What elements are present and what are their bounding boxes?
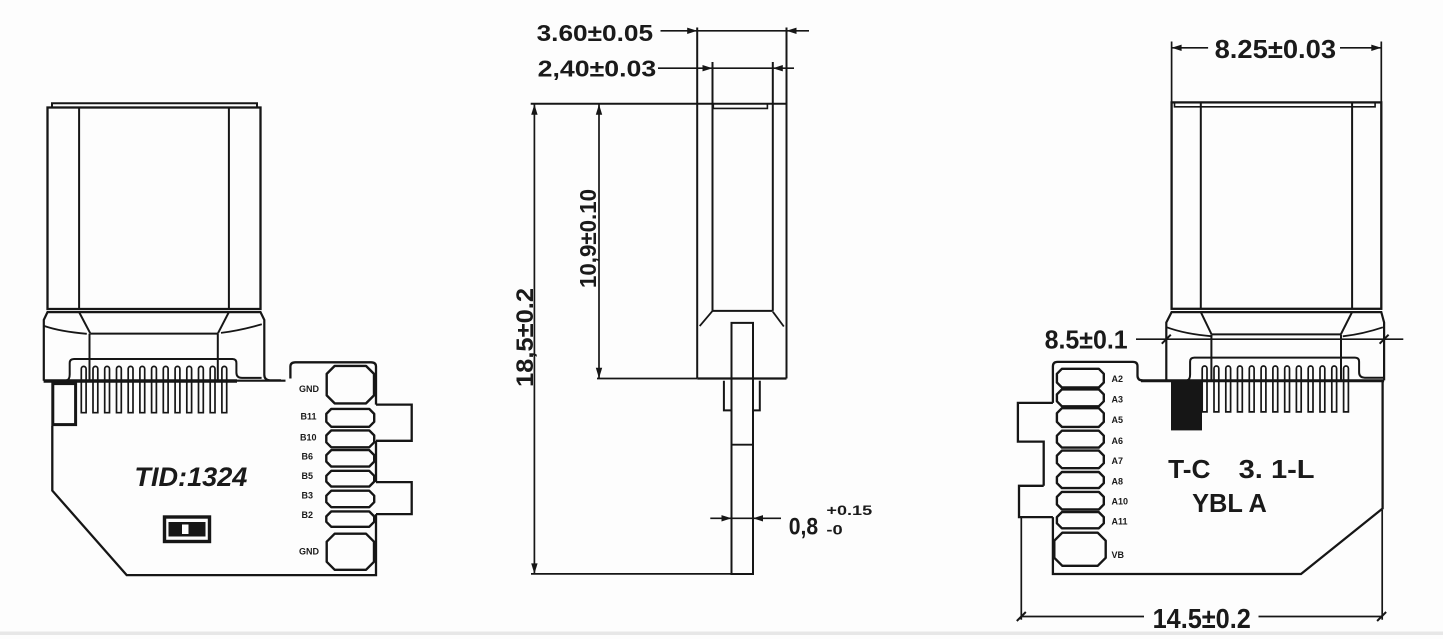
rear view: base thick line bbox=[1141, 379, 1384, 382]
side view: top edge with extension bbox=[531, 103, 787, 105]
left view: PCB outline bbox=[52, 362, 376, 575]
svg-text:10,9±0.10: 10,9±0.10 bbox=[575, 189, 601, 288]
svg-text:A8: A8 bbox=[1112, 477, 1124, 487]
rear view: collar inner chamfer left bbox=[1201, 312, 1212, 334]
rear view: collar fold line right bbox=[1343, 327, 1383, 336]
left view: pad B2 bbox=[326, 511, 374, 526]
svg-text:14.5±0.2: 14.5±0.2 bbox=[1153, 603, 1251, 634]
left view: pad B5 bbox=[326, 471, 374, 487]
svg-text:A6: A6 bbox=[1112, 436, 1124, 446]
rear view: 13 contact pins bbox=[1202, 366, 1207, 412]
svg-text:8.25±0.03: 8.25±0.03 bbox=[1215, 34, 1337, 64]
svg-text:A3: A3 bbox=[1112, 395, 1124, 405]
left view: switch component outline bbox=[165, 517, 210, 542]
svg-text:A10: A10 bbox=[1112, 497, 1129, 507]
side view: top lip bar bbox=[713, 105, 767, 109]
svg-text:A5: A5 bbox=[1112, 415, 1124, 425]
svg-text:GND: GND bbox=[299, 547, 320, 557]
svg-text:GND: GND bbox=[299, 384, 320, 394]
rear view: collar fold line left bbox=[1167, 327, 1212, 336]
side view: pin shoulder right bbox=[753, 381, 760, 411]
svg-text:A7: A7 bbox=[1112, 456, 1124, 466]
rear view: pad A7 bbox=[1057, 451, 1104, 469]
left view: base thick line bbox=[44, 379, 237, 382]
left view: pin housing box bbox=[67, 359, 262, 380]
left view: pad B6 bbox=[326, 450, 374, 467]
left view: pad GND bottom bbox=[327, 534, 374, 570]
rear view: PCB tab lower bbox=[1019, 486, 1053, 517]
dimension 0,8 +0.15/-0 bbox=[710, 502, 872, 541]
svg-text:A11: A11 bbox=[1112, 517, 1128, 527]
rear view: pad A11 bbox=[1057, 512, 1104, 528]
svg-text:VB: VB bbox=[1112, 550, 1125, 560]
rear view: shell inner right edge bbox=[1351, 102, 1353, 308]
dimension 8.5±0.1 bbox=[1045, 325, 1404, 355]
rear view: collar inner wall left bbox=[1210, 334, 1212, 380]
left view: PCB tab upper bbox=[376, 405, 412, 441]
left view: pad B10 bbox=[326, 430, 374, 447]
rear view: shell inner left edge bbox=[1200, 102, 1202, 308]
side view: bottom edge bbox=[697, 377, 786, 379]
left view: shell outer body bbox=[48, 108, 261, 310]
svg-text:+0.15: +0.15 bbox=[826, 502, 872, 518]
dimension 3.60±0.05 bbox=[537, 20, 809, 46]
left view: shell top lip bbox=[52, 103, 257, 107]
left view: collar inner wall left bbox=[89, 334, 91, 381]
rear view: pad A2 bbox=[1057, 369, 1104, 388]
rear view: pad A6 bbox=[1057, 431, 1104, 448]
svg-text:TID:1324: TID:1324 bbox=[134, 462, 247, 492]
left view: pad B3 bbox=[326, 491, 374, 508]
side view: inner left wall bbox=[712, 62, 714, 311]
rear view: pad VB bbox=[1054, 533, 1105, 566]
svg-text:B11: B11 bbox=[301, 412, 317, 422]
left view: shell inner right edge bbox=[228, 108, 230, 310]
side view: cavity floor bbox=[713, 310, 773, 312]
side view: inner right wall bbox=[772, 62, 774, 311]
side view: outer right wall bbox=[786, 28, 788, 379]
svg-text:YBL A: YBL A bbox=[1192, 488, 1267, 518]
left view: collar inner chamfer right bbox=[218, 312, 229, 333]
side view: solder pin bbox=[732, 323, 754, 574]
rear view: pad A10 bbox=[1057, 492, 1104, 510]
rear view: PCB outline bbox=[1053, 362, 1383, 574]
rear view: pad A3 bbox=[1057, 389, 1104, 406]
rear view: pad A8 bbox=[1057, 472, 1104, 488]
left view: PCB tab lower bbox=[376, 482, 412, 514]
rear view: collar inner chamfer right bbox=[1341, 312, 1352, 334]
svg-text:B5: B5 bbox=[302, 471, 314, 481]
rear view: pin housing box bbox=[1187, 358, 1384, 381]
rear view: collar outline bbox=[1166, 312, 1384, 380]
left view: collar fold line left bbox=[44, 326, 87, 334]
dimension 8.25±0.03 bbox=[1172, 34, 1382, 102]
svg-text:-0: -0 bbox=[826, 522, 843, 538]
left view: shell inner left edge bbox=[78, 108, 80, 310]
left view: collar inner shelf bbox=[90, 333, 218, 335]
left view: pad B11 bbox=[326, 409, 374, 427]
scan artifact: faint gray band bbox=[0, 632, 1443, 636]
svg-text:T-C: T-C bbox=[1168, 454, 1211, 484]
rear view: top lip line bbox=[1175, 102, 1376, 106]
svg-text:2,40±0.03: 2,40±0.03 bbox=[538, 56, 657, 82]
side view: outer left wall bbox=[696, 28, 698, 379]
dimension 18,5±0.2 bbox=[512, 104, 539, 574]
svg-text:B6: B6 bbox=[302, 452, 314, 462]
left view: 13 contact pins bbox=[81, 366, 86, 412]
svg-text:0,8: 0,8 bbox=[789, 514, 818, 541]
svg-text:8.5±0.1: 8.5±0.1 bbox=[1045, 325, 1128, 355]
left view: collar fold line right bbox=[221, 324, 262, 333]
dimension 2,40±0.03 bbox=[538, 56, 794, 82]
svg-text:18,5±0.2: 18,5±0.2 bbox=[512, 288, 539, 387]
dimension 14.5±0.2 bbox=[1017, 510, 1386, 634]
svg-text:3. 1-L: 3. 1-L bbox=[1239, 454, 1315, 484]
side view: bottom extension line bbox=[531, 573, 753, 575]
rear view: PCB tab upper bbox=[1018, 403, 1053, 486]
svg-text:B3: B3 bbox=[302, 491, 314, 501]
left view: pad GND top bbox=[327, 366, 374, 404]
svg-text:A2: A2 bbox=[1112, 374, 1124, 384]
left view: collar inner wall right bbox=[217, 334, 219, 381]
left view: side latch block bbox=[53, 384, 76, 425]
rear view: black plug mark bbox=[1171, 380, 1202, 430]
side view: pin joint line bbox=[732, 444, 754, 446]
side view: floor chamfer right bbox=[773, 312, 784, 327]
left view: collar inner chamfer left bbox=[79, 312, 90, 333]
dimension 10,9±0.10 bbox=[575, 104, 697, 378]
left view: switch black body bbox=[169, 522, 206, 537]
rear view: shell outer body bbox=[1172, 102, 1382, 308]
svg-text:B2: B2 bbox=[302, 510, 314, 520]
rear view: pad A5 bbox=[1057, 408, 1104, 427]
side view: pin shoulder left bbox=[724, 381, 732, 411]
side view: floor chamfer left bbox=[700, 311, 713, 326]
rear view: collar inner shelf bbox=[1211, 333, 1341, 335]
left view: collar outline bbox=[44, 312, 281, 381]
svg-text:3.60±0.05: 3.60±0.05 bbox=[537, 20, 654, 46]
left view: switch white slot bbox=[182, 525, 189, 535]
rear view: collar inner wall right bbox=[1340, 334, 1342, 380]
svg-text:B10: B10 bbox=[300, 433, 317, 443]
